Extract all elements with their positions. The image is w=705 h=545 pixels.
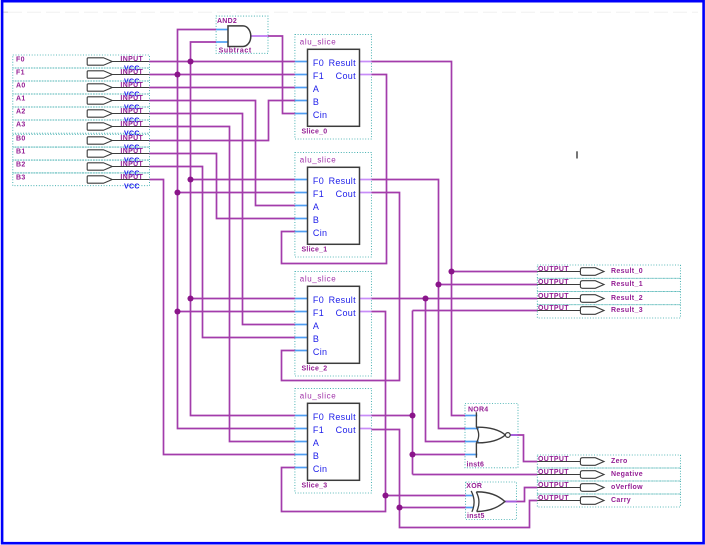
svg-text:INPUT: INPUT [120, 148, 143, 155]
svg-text:INPUT: INPUT [120, 95, 143, 102]
svg-text:alu_slice: alu_slice [300, 274, 337, 283]
svg-text:A1: A1 [16, 96, 26, 103]
svg-text:alu_slice: alu_slice [300, 155, 337, 164]
svg-text:Result: Result [329, 58, 357, 68]
svg-text:Slice_0: Slice_0 [302, 129, 328, 136]
svg-text:OUTPUT: OUTPUT [538, 279, 569, 286]
svg-text:INPUT: INPUT [120, 174, 143, 181]
svg-text:OUTPUT: OUTPUT [538, 305, 569, 312]
svg-text:F1: F1 [313, 71, 324, 81]
svg-text:Cout: Cout [336, 425, 356, 435]
svg-text:B: B [313, 451, 319, 461]
svg-text:Result_1: Result_1 [611, 281, 643, 288]
svg-text:INPUT: INPUT [120, 82, 143, 89]
svg-text:F1: F1 [313, 189, 324, 199]
svg-text:Cout: Cout [336, 71, 356, 81]
svg-text:Cin: Cin [313, 464, 327, 474]
svg-text:OUTPUT: OUTPUT [538, 495, 569, 502]
svg-text:Result_0: Result_0 [611, 268, 643, 275]
svg-text:F0: F0 [313, 58, 324, 68]
svg-text:A: A [313, 84, 319, 94]
svg-text:B2: B2 [16, 162, 26, 169]
svg-text:Cout: Cout [336, 308, 356, 318]
svg-text:Cin: Cin [313, 347, 327, 357]
svg-text:AND2: AND2 [217, 18, 237, 25]
svg-text:inst5: inst5 [467, 513, 485, 520]
svg-text:OUTPUT: OUTPUT [538, 266, 569, 273]
svg-text:Result: Result [329, 176, 357, 186]
svg-text:A: A [313, 202, 319, 212]
svg-text:NOR4: NOR4 [468, 406, 488, 413]
svg-text:alu_slice: alu_slice [300, 37, 337, 46]
svg-text:Cin: Cin [313, 228, 327, 238]
svg-text:INPUT: INPUT [120, 121, 143, 128]
svg-text:B: B [313, 215, 319, 225]
svg-text:Cout: Cout [336, 189, 356, 199]
svg-text:alu_slice: alu_slice [300, 391, 337, 400]
svg-text:A3: A3 [16, 122, 26, 129]
svg-text:F1: F1 [313, 425, 324, 435]
svg-text:F1: F1 [313, 308, 324, 318]
svg-text:A2: A2 [16, 109, 26, 116]
svg-text:Result: Result [329, 295, 357, 305]
svg-text:Carry: Carry [611, 497, 631, 504]
svg-text:Result_3: Result_3 [611, 307, 643, 314]
svg-text:XOR: XOR [466, 483, 482, 490]
svg-text:F0: F0 [313, 176, 324, 186]
svg-text:B: B [313, 334, 319, 344]
svg-text:Cin: Cin [313, 110, 327, 120]
svg-text:INPUT: INPUT [120, 108, 143, 115]
svg-text:A0: A0 [16, 83, 26, 90]
svg-text:B0: B0 [16, 136, 26, 143]
svg-text:Result: Result [329, 412, 357, 422]
svg-text:INPUT: INPUT [120, 56, 143, 63]
svg-text:B3: B3 [16, 175, 26, 182]
svg-text:INPUT: INPUT [120, 161, 143, 168]
svg-text:VCC: VCC [124, 184, 140, 191]
svg-text:INPUT: INPUT [120, 69, 143, 76]
svg-text:oVerflow: oVerflow [611, 484, 643, 491]
svg-text:Result_2: Result_2 [611, 295, 643, 302]
svg-text:Subtract: Subtract [219, 48, 252, 55]
svg-text:B: B [313, 97, 319, 107]
svg-text:OUTPUT: OUTPUT [538, 293, 569, 300]
svg-text:F0: F0 [313, 412, 324, 422]
svg-text:F0: F0 [16, 57, 25, 64]
svg-text:Zero: Zero [611, 458, 628, 465]
svg-text:F1: F1 [16, 70, 25, 77]
svg-text:F0: F0 [313, 295, 324, 305]
svg-text:B1: B1 [16, 149, 26, 156]
svg-text:A: A [313, 438, 319, 448]
svg-text:OUTPUT: OUTPUT [538, 469, 569, 476]
svg-text:A: A [313, 321, 319, 331]
svg-text:INPUT: INPUT [120, 135, 143, 142]
svg-text:OUTPUT: OUTPUT [538, 456, 569, 463]
svg-text:OUTPUT: OUTPUT [538, 482, 569, 489]
svg-text:Slice_3: Slice_3 [302, 483, 328, 490]
svg-text:inst6: inst6 [467, 462, 485, 469]
svg-text:Negative: Negative [611, 471, 643, 478]
svg-text:Slice_2: Slice_2 [302, 366, 328, 373]
svg-text:Slice_1: Slice_1 [302, 247, 328, 254]
